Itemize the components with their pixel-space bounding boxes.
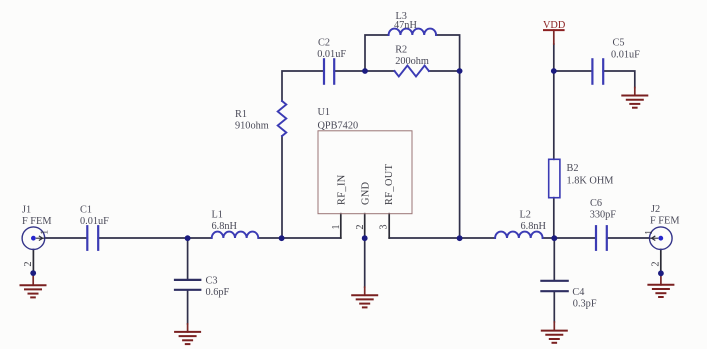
svg-text:1.8K OHM: 1.8K OHM: [567, 175, 614, 186]
svg-text:C5: C5: [613, 38, 625, 49]
svg-text:2: 2: [651, 262, 662, 267]
svg-text:1: 1: [644, 230, 655, 235]
svg-text:330pF: 330pF: [590, 209, 617, 220]
svg-text:2: 2: [23, 262, 34, 267]
svg-text:C2: C2: [318, 38, 330, 49]
svg-text:VDD: VDD: [543, 20, 566, 31]
svg-text:QPB7420: QPB7420: [318, 120, 359, 131]
svg-text:U1: U1: [318, 107, 331, 118]
svg-text:910ohm: 910ohm: [235, 120, 269, 131]
svg-text:L1: L1: [212, 210, 223, 221]
svg-text:200ohm: 200ohm: [395, 56, 429, 67]
svg-text:1: 1: [40, 230, 51, 235]
svg-text:J2: J2: [651, 204, 660, 215]
svg-text:1: 1: [331, 225, 342, 230]
svg-text:0.01uF: 0.01uF: [317, 49, 346, 60]
svg-text:R2: R2: [395, 45, 407, 56]
svg-text:C1: C1: [80, 204, 92, 215]
svg-text:C6: C6: [590, 198, 602, 209]
svg-text:6.8nH: 6.8nH: [212, 221, 238, 232]
svg-text:R1: R1: [235, 109, 247, 120]
svg-text:0.01uF: 0.01uF: [80, 216, 109, 227]
svg-text:B2: B2: [567, 163, 579, 174]
svg-text:47nH: 47nH: [394, 20, 417, 31]
svg-text:F FEM: F FEM: [650, 215, 679, 226]
svg-text:RF_IN: RF_IN: [337, 174, 348, 205]
svg-text:0.01uF: 0.01uF: [611, 49, 640, 60]
svg-text:J1: J1: [22, 204, 31, 215]
svg-text:3: 3: [379, 225, 390, 230]
svg-text:0.3pF: 0.3pF: [573, 299, 597, 310]
svg-text:C4: C4: [572, 287, 584, 298]
svg-text:6.8nH: 6.8nH: [521, 221, 547, 232]
svg-text:C3: C3: [206, 276, 218, 287]
svg-text:L2: L2: [520, 210, 531, 221]
svg-text:0.6pF: 0.6pF: [206, 287, 230, 298]
svg-text:F FEM: F FEM: [22, 216, 51, 227]
svg-text:RF_OUT: RF_OUT: [384, 163, 395, 205]
svg-text:GND: GND: [361, 181, 372, 205]
svg-text:2: 2: [355, 225, 366, 230]
